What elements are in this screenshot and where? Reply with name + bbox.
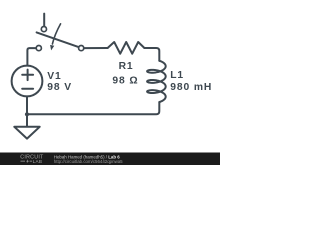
node junction dot (25, 112, 29, 116)
switch SW1 arrow head (50, 45, 54, 51)
wire L1 bottom to ground rail (27, 102, 159, 114)
svg-text:V1: V1 (47, 71, 61, 82)
voltage source V1 plus sign (22, 70, 33, 81)
footer CircuitLab logo dash left (21, 160, 26, 163)
switch SW1 terminal B (36, 46, 41, 51)
wire switch common to V1 (27, 48, 36, 66)
switch SW1 actuation arrow curve (52, 24, 60, 44)
svg-text:L1: L1 (170, 70, 184, 81)
svg-text:http://circuitlab.com/c56442qp: http://circuitlab.com/c56442qpnwa5 (54, 159, 123, 164)
switch SW1 terminal C (79, 46, 84, 51)
voltage source V1 circle (12, 66, 43, 97)
svg-text:980 mH: 980 mH (170, 82, 212, 93)
switch SW1 terminal A (41, 27, 46, 32)
voltage source V1 minus sign (22, 88, 33, 90)
wire switch top stub (43, 14, 45, 27)
wire V1 bottom lead (26, 96, 28, 114)
footer CircuitLab logo bolt (26, 159, 29, 163)
footer CircuitLab logo dash right (30, 160, 32, 163)
svg-text:98 Ω: 98 Ω (112, 75, 138, 86)
svg-text:LAB: LAB (33, 159, 43, 164)
resistor R1 (108, 42, 145, 54)
footer watermark bar (0, 153, 220, 166)
ground symbol (14, 127, 39, 139)
switch SW1 lever (37, 32, 79, 47)
svg-text:98 V: 98 V (47, 82, 72, 93)
wire node SW to R1 (84, 47, 108, 49)
wire ground stub (26, 114, 28, 127)
wire R1 to L1 top (144, 48, 159, 61)
svg-text:R1: R1 (119, 61, 134, 72)
inductor L1 coil (147, 61, 166, 102)
